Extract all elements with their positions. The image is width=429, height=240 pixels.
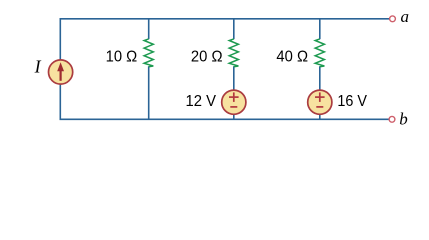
- wire top rail: [60, 19, 389, 69]
- wire 40-ohm / 16V branch: [319, 19, 321, 120]
- wire 20-ohm / 12V branch: [233, 19, 235, 120]
- resistor 40 ohm: [315, 39, 324, 67]
- terminal b: [389, 116, 395, 122]
- svg-text:16 V: 16 V: [337, 93, 367, 110]
- label b: [399, 109, 408, 128]
- wire bottom rail: [60, 69, 389, 119]
- label 20 ohm: [191, 49, 223, 66]
- svg-text:b: b: [399, 109, 408, 128]
- svg-text:10 Ω: 10 Ω: [106, 49, 138, 66]
- svg-text:a: a: [401, 7, 410, 26]
- svg-text:40 Ω: 40 Ω: [276, 49, 308, 66]
- label 16 V: [337, 93, 367, 110]
- svg-text:I: I: [34, 57, 42, 77]
- voltage source 16 V: [308, 90, 332, 114]
- label 12 V: [186, 93, 217, 110]
- terminal a: [390, 16, 396, 22]
- wire 10-ohm branch: [148, 19, 150, 120]
- voltage source 12 V: [222, 90, 246, 114]
- label 10 ohm: [106, 49, 138, 66]
- svg-text:12 V: 12 V: [186, 93, 217, 110]
- label 40 ohm: [276, 49, 308, 66]
- resistor 20 ohm: [229, 39, 238, 67]
- label I: [34, 57, 42, 77]
- svg-text:20 Ω: 20 Ω: [191, 49, 223, 66]
- label a: [401, 7, 410, 26]
- resistor 10 ohm: [144, 39, 153, 67]
- current source I: [49, 60, 73, 84]
